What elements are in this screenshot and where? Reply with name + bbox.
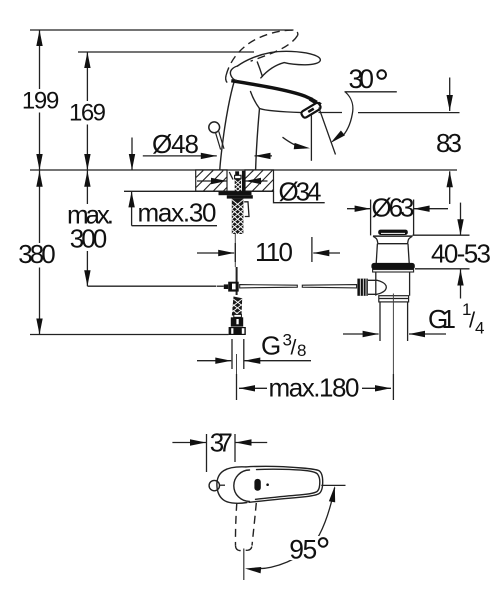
svg-text:380: 380 bbox=[18, 239, 56, 269]
dim G3/8 left arrow bbox=[197, 358, 231, 364]
hex nut highlight right bbox=[242, 328, 245, 334]
handle small dot bbox=[266, 483, 269, 486]
handle centerline bbox=[243, 549, 245, 581]
dim O48 left arrow bbox=[143, 153, 217, 159]
G3/8 extension line right bbox=[243, 339, 245, 369]
pop-up vertical rod bbox=[236, 267, 238, 295]
faucet aerator band bbox=[300, 102, 321, 119]
shank right black bar bbox=[242, 171, 245, 192]
svg-text:83: 83 bbox=[436, 128, 462, 158]
30 deg diagonal line bbox=[319, 108, 336, 155]
dim 83 top arrow bbox=[447, 78, 453, 112]
svg-text:Ø34: Ø34 bbox=[279, 177, 322, 207]
drain flange top line bbox=[373, 235, 412, 237]
dashed raised lever rear bbox=[226, 75, 228, 83]
svg-text:4: 4 bbox=[475, 319, 484, 338]
83 reference line segment b bbox=[358, 112, 460, 114]
hose white band bbox=[234, 314, 242, 317]
svg-text:110: 110 bbox=[255, 237, 293, 267]
handle blade inner line bbox=[256, 469, 320, 499]
O63 extension line left bbox=[370, 200, 372, 236]
dashed rotated handle left edge bbox=[235, 503, 236, 546]
shank top cap bbox=[235, 171, 239, 175]
connector set screw nub bbox=[224, 284, 228, 289]
faucet body right edge bbox=[256, 109, 260, 170]
svg-text:max.180: max.180 bbox=[269, 373, 360, 403]
drain pop-up cap bbox=[378, 230, 408, 235]
shank braid upper bbox=[235, 179, 241, 192]
connector block white center bbox=[232, 284, 236, 290]
faucet spout tip hook bbox=[309, 97, 322, 106]
G3/8 extension line left bbox=[231, 339, 233, 369]
drain tailpipe right bbox=[407, 302, 409, 341]
83 reference line segment a bbox=[319, 112, 343, 114]
dim 83 bottom arrow bbox=[447, 171, 453, 204]
dim O48 right arrow bbox=[255, 153, 273, 159]
dim 110 left arrow bbox=[197, 243, 235, 262]
hex nut highlight left bbox=[231, 328, 233, 334]
label G3/8 bbox=[261, 331, 306, 361]
faucet centerline below shank bbox=[234, 234, 236, 267]
shank white box bbox=[235, 175, 241, 178]
mounting washer black bar bbox=[219, 191, 252, 195]
top reference line (199 level) bbox=[30, 29, 294, 31]
faucet lever solid outline bbox=[238, 51, 321, 78]
dim O63 right arrow bbox=[414, 206, 448, 212]
deck bottom line bbox=[124, 190, 274, 192]
handle top view pin circle bbox=[209, 480, 219, 490]
faucet neck crease bbox=[251, 92, 260, 109]
dim G3/8 right arrow bbox=[244, 358, 311, 364]
hose hex nut bbox=[229, 327, 246, 335]
dim line 169 bbox=[84, 52, 90, 170]
handle screw mark bbox=[254, 479, 260, 491]
dim line 380 bbox=[36, 170, 42, 334]
pop-up rod connector block bbox=[228, 282, 239, 292]
handle cap outline bbox=[217, 467, 247, 503]
dim O34 right arrow bbox=[245, 178, 268, 184]
label 95 deg white backing bbox=[287, 536, 333, 560]
shank diagonal rod in hole bbox=[229, 172, 233, 180]
svg-text:8: 8 bbox=[297, 341, 306, 360]
drain centerline bbox=[392, 294, 394, 375]
drain lower body right bbox=[409, 272, 411, 296]
dashed rotated handle right edge bbox=[252, 503, 256, 546]
svg-text:Ø48: Ø48 bbox=[152, 129, 199, 159]
supply hose braided section bbox=[232, 297, 242, 318]
faucet deck hatching left block bbox=[196, 170, 227, 191]
dim max.180 right arrow bbox=[362, 385, 391, 391]
dashed raised lever outer bbox=[226, 30, 298, 75]
pop-up knob rod line a bbox=[215, 132, 220, 149]
dim max.30 upper arrow bbox=[129, 138, 135, 171]
drain upper body left bbox=[376, 244, 377, 264]
svg-text:40-53: 40-53 bbox=[431, 239, 491, 269]
dim 37 right arrow bbox=[236, 439, 268, 445]
dim 37 left tick bbox=[206, 434, 208, 472]
O63 extension line right bbox=[413, 200, 415, 236]
second reference line (169 level) bbox=[78, 51, 254, 53]
dim max.30 lower arrow and leader bbox=[128, 191, 217, 225]
svg-text:/: / bbox=[291, 337, 297, 360]
40-53 flange reference line bbox=[413, 234, 470, 236]
svg-text:Ø63: Ø63 bbox=[372, 193, 415, 223]
faucet spout underside bbox=[260, 109, 303, 113]
drain lower body left bbox=[375, 272, 377, 296]
30 deg large arc with arrow bbox=[328, 92, 352, 145]
drain funnel left side bbox=[373, 236, 378, 244]
svg-text:37: 37 bbox=[210, 428, 233, 458]
svg-text:30: 30 bbox=[349, 64, 375, 94]
svg-text:199: 199 bbox=[22, 88, 60, 115]
dim line max.300 bbox=[84, 170, 90, 286]
dim G1 1/4 left arrow bbox=[343, 331, 379, 337]
dashed raised lever inner return bbox=[251, 35, 298, 61]
O34 label leader box bbox=[274, 191, 325, 202]
faucet centerline lower bbox=[236, 354, 238, 374]
drain upper body right bbox=[408, 244, 409, 264]
30 deg reference horizontal line bbox=[345, 91, 397, 93]
dim max.180 right tick bbox=[392, 374, 394, 400]
dim 37 left arrow bbox=[172, 439, 206, 445]
faucet body left edge bbox=[220, 81, 235, 170]
drain collar inner line bbox=[379, 298, 409, 300]
drain lever port cylinder bbox=[368, 280, 386, 294]
dim G1 1/4 right arrow bbox=[409, 331, 446, 337]
dim max.180 left tick bbox=[236, 374, 238, 400]
horizontal linkage rod segment 1 bbox=[240, 285, 298, 288]
drain knurled knob bbox=[357, 279, 367, 296]
connector lead-in line bbox=[217, 285, 224, 287]
handle pin tick bbox=[220, 484, 225, 486]
threaded shank braid bbox=[232, 199, 244, 234]
drain neck shoulder line bbox=[377, 243, 408, 245]
dim 40-53 up arrow bbox=[457, 270, 463, 299]
faucet deck hatching right block bbox=[245, 170, 274, 191]
pop-up rod guide hook bbox=[244, 202, 249, 217]
hose black fitting bbox=[231, 317, 243, 326]
pop-up knob rod line b bbox=[219, 131, 224, 148]
30 deg small arc with arrow bbox=[283, 137, 311, 151]
max.300 bottom reference line bbox=[88, 285, 217, 287]
faucet lever inner crease bbox=[257, 62, 262, 76]
drain tailpipe left bbox=[379, 302, 381, 341]
dim max.180 left arrow bbox=[239, 385, 267, 391]
drain collar bbox=[379, 296, 409, 302]
horizontal linkage rod segment 2 bbox=[302, 285, 356, 288]
dim 37 right tick bbox=[234, 434, 236, 462]
40-53 lower reference line (O-ring level) bbox=[415, 268, 470, 270]
dim line 199 bbox=[36, 30, 42, 170]
faucet spout top thick edge bbox=[231, 81, 312, 100]
380 bottom reference line bbox=[30, 334, 229, 336]
handle cap inner dome arc bbox=[234, 470, 250, 501]
fitting slot bbox=[236, 319, 238, 324]
svg-text:G1: G1 bbox=[428, 304, 456, 334]
drain funnel right side bbox=[408, 236, 413, 244]
dim 40-53 down arrow bbox=[457, 203, 463, 236]
handle blade outline bbox=[246, 466, 323, 502]
svg-text:max.30: max.30 bbox=[138, 198, 217, 228]
dim 110 right arrow bbox=[312, 237, 340, 262]
pop-up knob bbox=[209, 122, 220, 133]
svg-text:169: 169 bbox=[69, 100, 106, 127]
label G1 1/4 bbox=[428, 300, 484, 338]
dim O63 left arrow bbox=[347, 206, 371, 212]
svg-text:95: 95 bbox=[289, 535, 317, 565]
svg-text:300: 300 bbox=[70, 224, 108, 254]
dashed rotated handle bottom cap bbox=[236, 546, 253, 551]
dim O34 left arrow bbox=[197, 178, 227, 184]
svg-text:G: G bbox=[261, 331, 281, 361]
spout tip hook notch bbox=[317, 101, 319, 102]
spout tip vertical extension bbox=[310, 115, 312, 161]
mounting nut black bar bbox=[227, 195, 253, 198]
deck top line bbox=[30, 169, 457, 171]
faucet lever rear cap bbox=[230, 66, 237, 80]
drain flange lip bbox=[373, 270, 414, 273]
95 deg arc with arrows bbox=[245, 485, 338, 573]
95 deg reference line bbox=[321, 484, 345, 486]
drain O-ring black band bbox=[371, 263, 414, 270]
